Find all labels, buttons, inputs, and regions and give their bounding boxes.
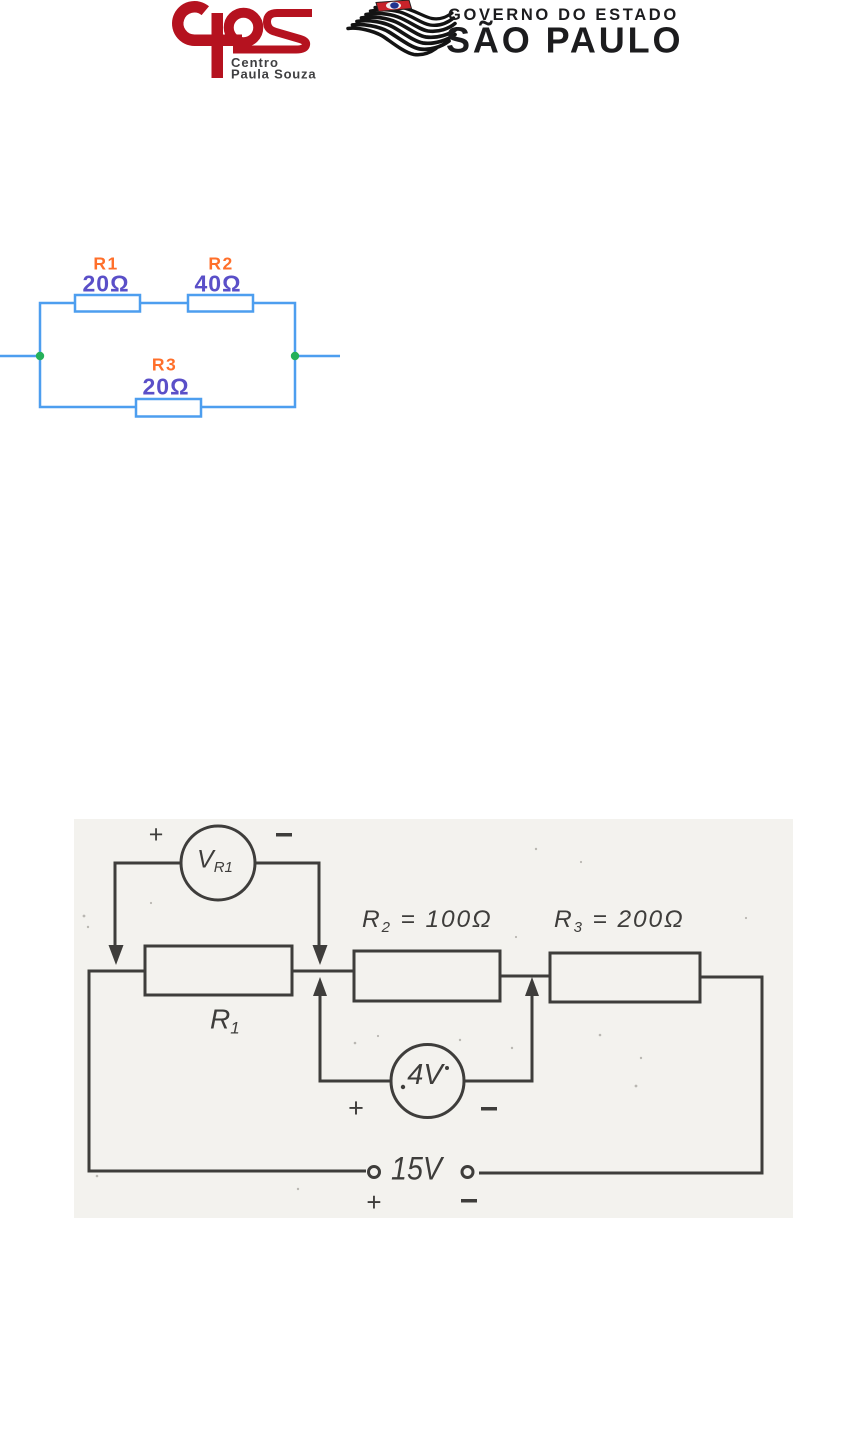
wire left lead [0,355,40,358]
arrowhead right down [313,945,328,965]
svg-text:SÃO PAULO: SÃO PAULO [446,19,683,61]
scan background [74,819,793,1218]
wire between R1 and R2 [140,302,188,305]
wire VR1 right to arrow [255,863,319,946]
svg-text:20Ω: 20Ω [82,271,129,297]
svg-text:R3: R3 [152,355,177,375]
4V right lead with up arrow [464,995,532,1081]
resistor R3 [136,399,201,417]
svg-text:15V: 15V [391,1151,444,1187]
wire right lead [295,355,340,358]
svg-text:20Ω: 20Ω [142,374,189,400]
resistor R1 [75,295,140,312]
minus 15V [461,1199,477,1203]
left rail [89,971,366,1171]
SP flag canton [376,0,412,12]
4V meter circle [391,1045,464,1118]
resistor R2 [188,295,253,312]
scan speckles [83,848,748,1190]
svg-text:R3 = 200Ω: R3 = 200Ω [554,906,685,936]
svg-text:Paula Souza: Paula Souza [231,67,316,82]
svg-text:+: + [366,1187,381,1217]
voltmeter VR1 [181,826,255,900]
svg-text:40Ω: 40Ω [194,271,241,297]
CPS logo letter p stem [212,13,224,78]
svg-text:+: + [348,1093,364,1123]
wire R2 to R3 [500,975,550,978]
4V left lead with up arrow [320,995,391,1081]
wire bottom branch right [201,356,295,407]
wire bottom branch left [40,356,136,407]
svg-text:R2 = 100Ω: R2 = 100Ω [362,906,493,936]
node right [291,352,299,360]
resistor R2 box [354,951,500,1001]
wire R1 to R2 [292,970,354,973]
CPS logo letter S [233,13,312,50]
CPS logo letter p bowl [229,13,259,43]
svg-text:4V: 4V [407,1059,445,1091]
wire R3 to right rail [479,977,762,1173]
wire VR1 left to arrow [115,863,181,946]
arrowhead left down [109,945,124,965]
CPS logo letter C with bottom bar [178,7,242,41]
resistor R3 box [550,953,700,1002]
minus top right [276,833,292,837]
svg-text:+: + [149,821,164,849]
minus 4V [481,1107,497,1111]
wire R2 to right vertical [253,303,295,356]
resistor R1 box [145,946,292,995]
wire left vertical to top branch [40,303,75,356]
15V right terminal [462,1167,473,1178]
node left [36,352,44,360]
SP flag stripes [348,6,457,55]
15V left terminal [369,1167,380,1178]
